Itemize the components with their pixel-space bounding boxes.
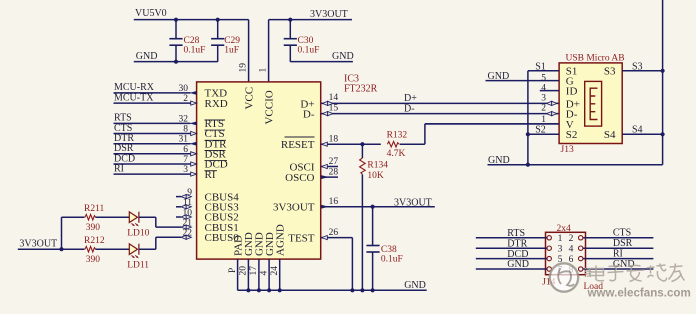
svg-text:20: 20 (239, 266, 249, 276)
svg-text:31: 31 (179, 135, 189, 145)
wire R134 to GND rail (361, 175, 363, 291)
svg-text:1: 1 (259, 68, 269, 73)
svg-text:27: 27 (329, 157, 339, 167)
wire corner down to CBUS1 (155, 217, 157, 227)
svg-text:VCC: VCC (244, 87, 256, 110)
wire 3V3OUT rail (269, 19, 352, 21)
svg-text:S4: S4 (632, 124, 643, 135)
wire CBUS0 stub (156, 236, 181, 238)
wire S4 wire (622, 133, 662, 135)
wire ID stub (540, 90, 559, 92)
svg-text:4: 4 (259, 271, 269, 276)
resistor R134 zigzag (360, 158, 366, 175)
wire corner up to CBUS0 (155, 237, 157, 249)
pin arrow (output) TXD (190, 91, 196, 94)
wire CBUS1 stub (156, 226, 181, 228)
wire IC3 PAD pin P drop (237, 259, 239, 290)
overline IC3 RTS (205, 119, 226, 121)
svg-text:0.1uF: 0.1uF (298, 46, 320, 56)
svg-text:R212: R212 (84, 236, 105, 246)
wire net DTR to J14 (476, 247, 547, 249)
svg-text:S3: S3 (604, 66, 616, 78)
connector J14 2x4 header body (546, 232, 586, 274)
pin arrow (input) DSR (191, 152, 197, 156)
LED LD11 symbol (129, 244, 139, 259)
junction VU5V0/C28 (174, 18, 178, 22)
junction RESET/R134 (360, 142, 364, 146)
wire RESET to R132 (321, 143, 381, 145)
J13 USB symbol (585, 81, 602, 126)
svg-text:3V3OUT: 3V3OUT (19, 238, 57, 249)
svg-text:J13: J13 (561, 145, 574, 155)
svg-text:VU5V0: VU5V0 (135, 8, 167, 19)
junction GND rail at x=258.9 (257, 288, 261, 292)
capacitor C28 symbol (175, 20, 177, 39)
overline IC3 DSR (205, 149, 226, 151)
svg-text:LD11: LD11 (127, 261, 149, 271)
wire net DCD to J14 (476, 258, 547, 260)
wire VCC pin19 drop (248, 20, 250, 83)
pin arrow (output) DTR (190, 142, 196, 145)
wire net MCU-TX to pin 2 (114, 102, 191, 104)
wire net GND from J14 (583, 268, 653, 270)
svg-text:R132: R132 (387, 131, 408, 141)
svg-text:3V3OUT: 3V3OUT (394, 197, 432, 208)
svg-text:5: 5 (541, 73, 546, 83)
junction GND rail at x=372.6 (371, 288, 375, 292)
wire IC3 GND pin 17 drop (258, 259, 260, 290)
junction GND rail at x=352.4 (350, 288, 354, 292)
capacitor C30 symbol (289, 20, 291, 39)
svg-text:RI: RI (114, 163, 124, 174)
wire R212 to LD11 (96, 248, 130, 250)
svg-text:R211: R211 (84, 204, 104, 214)
svg-text:30: 30 (179, 84, 189, 94)
junction GND/C28 (174, 60, 178, 64)
junction GND rail at x=248.4 (246, 288, 250, 292)
junction GND rail at x=362.4 (360, 288, 364, 292)
pin arrow (bidirectional) CBUS4 (181, 195, 191, 199)
svg-text:DTR: DTR (507, 238, 527, 249)
wire R132 to V drop (400, 143, 425, 145)
J14 pin circle left row 2 (547, 246, 551, 250)
wire R211 to LD10 (96, 216, 130, 218)
pin arrow (input) RXD (191, 101, 197, 105)
svg-text:3V3OUT: 3V3OUT (310, 9, 348, 20)
overline IC3 DCD (205, 160, 228, 162)
svg-text:1: 1 (541, 115, 546, 125)
LED LD10 symbol (129, 212, 139, 227)
svg-text:1: 1 (558, 234, 563, 244)
svg-text:0.1uF: 0.1uF (184, 46, 206, 56)
pin arrow (bidirectional) CBUS2 (181, 215, 191, 219)
overline IC3 RESET (285, 136, 315, 138)
wire 3V3OUT pin wire (321, 206, 435, 208)
overline IC3 RI (205, 170, 218, 172)
pin arrow (bidirectional) CBUS0 (181, 235, 191, 239)
pin arrow (bidirectional) D+ at IC (323, 101, 333, 105)
svg-text:R134: R134 (367, 161, 388, 171)
svg-text:4: 4 (541, 83, 546, 93)
capacitor C38 symbol (372, 207, 374, 245)
wire VU5V0 rail (134, 19, 249, 21)
svg-text:MCU-TX: MCU-TX (114, 92, 154, 103)
pin arrow (bidirectional) CBUS1 (181, 225, 191, 229)
svg-text:AGND: AGND (275, 224, 287, 256)
wire OSCO stub (321, 176, 338, 178)
wire IC3 GND pin 4 drop (268, 259, 270, 290)
svg-text:USB Micro AB: USB Micro AB (566, 54, 625, 64)
wire net GND to J14 (476, 268, 547, 270)
svg-text:390: 390 (86, 255, 101, 265)
wire net CTS from J14 (583, 237, 653, 239)
wire net RTS to pin 32 (114, 122, 191, 124)
svg-text:3: 3 (183, 165, 188, 175)
svg-text:RESET: RESET (281, 139, 315, 151)
watermark chinese characters (stylized) (590, 264, 685, 282)
wire CBUS3 stub (176, 206, 181, 208)
svg-text:FT232R: FT232R (344, 84, 378, 95)
svg-text:2: 2 (183, 94, 188, 104)
junction GND rail at x=279.7 (278, 288, 282, 292)
svg-text:GND: GND (404, 280, 426, 291)
wire net RTS to J14 (476, 237, 547, 239)
pin arrow (bidirectional) D+ at USB (547, 101, 557, 105)
J14 pin circle right row 1 (579, 236, 583, 240)
svg-text:RTS: RTS (507, 228, 525, 239)
pin arrow (bidirectional) D- at USB (547, 112, 557, 116)
op-amp U1: IC3 FT232R body (197, 82, 321, 259)
svg-text:S2: S2 (535, 125, 546, 136)
svg-text:CTS: CTS (613, 228, 631, 239)
svg-text:GND: GND (488, 71, 510, 82)
svg-text:26: 26 (329, 228, 339, 238)
svg-text:3: 3 (541, 93, 546, 103)
svg-text:28: 28 (329, 168, 339, 178)
svg-text:8: 8 (183, 125, 188, 135)
junction bus/S2 (526, 132, 530, 136)
pin arrow (input) RI (191, 172, 197, 176)
wire GND rail right (488, 164, 663, 166)
svg-text:14: 14 (329, 93, 339, 103)
J14 pin circle right row 2 (579, 246, 583, 250)
junction VU5V0/C29 (216, 18, 220, 22)
resistor R211 zigzag (85, 214, 96, 220)
wire OSCI stub (321, 166, 338, 168)
wire net DSR from J14 (583, 247, 653, 249)
wire GND to G pin (486, 80, 560, 82)
wire LD11 to corner (139, 248, 156, 250)
svg-text:S2: S2 (566, 129, 578, 141)
svg-text:OSCO: OSCO (285, 172, 314, 184)
svg-text:24: 24 (270, 266, 280, 276)
junction bus/GND rail (526, 163, 530, 167)
junction 3V3OUT branch (59, 247, 63, 251)
svg-text:17: 17 (249, 266, 259, 276)
watermark logo circle (550, 263, 578, 291)
svg-text:3V3OUT: 3V3OUT (273, 202, 315, 214)
wire 3V3OUT stub (18, 248, 62, 250)
junction 3V3OUT/C30 (288, 18, 292, 22)
svg-text:D-: D- (404, 103, 415, 114)
wire V wire (425, 123, 559, 125)
svg-text:GND: GND (488, 155, 510, 166)
svg-text:2: 2 (541, 104, 546, 114)
pin arrow (input) RESET (321, 142, 327, 146)
svg-text:GND: GND (507, 259, 529, 270)
wire CBUS2 stub (176, 216, 181, 218)
wire IC3 GND pin 20 drop (247, 259, 249, 290)
svg-text:3: 3 (558, 245, 563, 255)
J14 pin circle left row 4 (547, 267, 551, 271)
wire IC3 AGND pin 24 drop (279, 259, 281, 290)
svg-text:0.1uF: 0.1uF (381, 255, 403, 265)
wire TEST wire (321, 237, 352, 239)
wire net CTS to pin 8 (114, 133, 191, 135)
wire net MCU-RX to pin 30 (114, 92, 191, 94)
junction 3V3OUT/C38 (371, 205, 375, 209)
wire V wire to USB (425, 123, 559, 125)
overline IC3 CTS (205, 129, 226, 131)
resistor R132 zigzag (387, 141, 399, 147)
wire S1 wire (528, 70, 559, 72)
wire net DSR to pin 6 (114, 153, 191, 155)
overline IC3 DTR (205, 139, 227, 141)
wire to R212 (62, 248, 85, 250)
svg-text:1uF: 1uF (224, 46, 239, 56)
wire net RI from J14 (583, 258, 653, 260)
wire S2 wire (528, 133, 559, 135)
svg-text:15: 15 (329, 103, 339, 113)
wire to R211 (62, 216, 85, 218)
watermark dots (585, 268, 591, 277)
wire branch up (61, 217, 63, 249)
svg-text:ID: ID (566, 86, 578, 98)
pin arrow (bidirectional) CBUS3 (181, 205, 191, 209)
svg-text:RXD: RXD (205, 98, 228, 110)
wire net D- IC to USB (321, 113, 559, 115)
wire net DTR to pin 31 (114, 143, 191, 145)
svg-text:DSR: DSR (613, 238, 633, 249)
svg-text:4: 4 (569, 245, 574, 255)
J14 pin circle left row 1 (547, 236, 551, 240)
wire net RI to pin 3 (114, 173, 191, 175)
wire TEST to GND rail (351, 238, 353, 291)
svg-text:2: 2 (569, 234, 574, 244)
svg-text:D-: D- (303, 109, 315, 121)
svg-text:4.7K: 4.7K (387, 149, 406, 159)
wire V drop (424, 124, 426, 144)
wire GND rail top-left (134, 61, 218, 63)
junction S4/vertical (661, 132, 665, 136)
pin arrow (output) OSCO (321, 175, 327, 178)
pin arrow (bidirectional) D- at IC (323, 112, 333, 116)
pin arrow (input) DCD (191, 162, 197, 166)
wire LD10 to corner (139, 216, 156, 218)
svg-text:GND: GND (136, 51, 158, 62)
pin arrow (output) 3V3OUT (321, 205, 327, 208)
wire right vertical net (662, 0, 664, 165)
svg-text:S4: S4 (604, 129, 616, 141)
svg-text:10K: 10K (367, 171, 384, 181)
svg-text:32: 32 (179, 114, 189, 124)
svg-text:390: 390 (86, 223, 101, 233)
svg-text:P: P (228, 268, 238, 273)
pin arrow (output) RTS (190, 122, 196, 125)
svg-text:16: 16 (329, 197, 339, 207)
svg-text:7: 7 (183, 155, 188, 165)
svg-text:19: 19 (239, 63, 249, 73)
pin arrow (input) OSCI (321, 164, 327, 168)
svg-text:S1: S1 (535, 61, 546, 72)
wire VCCIO pin1 drop (268, 20, 270, 83)
connector J13 body (559, 63, 622, 144)
junction S3/vertical (661, 69, 665, 73)
wire GND rail bottom (238, 289, 427, 291)
wire GND rail top-mid (290, 61, 353, 63)
svg-text:RI: RI (613, 248, 623, 259)
svg-text:18: 18 (329, 135, 339, 145)
resistor R212 zigzag (85, 246, 96, 252)
wire net D+ IC to USB (321, 102, 559, 104)
svg-text:DCD: DCD (507, 249, 528, 260)
svg-text:TEST: TEST (288, 233, 315, 245)
svg-text:GND: GND (332, 51, 354, 62)
svg-text:www.elecfans.com: www.elecfans.com (587, 286, 691, 299)
wire S3 wire (622, 70, 662, 72)
svg-text:VCCIO: VCCIO (264, 90, 276, 124)
pin arrow (input) CTS (191, 131, 197, 135)
wire RESET to R134 (361, 144, 363, 158)
J14 pin circle left row 3 (547, 256, 551, 260)
capacitor C29 symbol (217, 20, 219, 39)
svg-text:6: 6 (183, 145, 188, 155)
wire S1/S2 GND bus (527, 71, 529, 165)
wire net DCD to pin 7 (114, 163, 191, 165)
pin arrow (input) TEST (321, 236, 327, 240)
svg-text:LD10: LD10 (127, 229, 149, 239)
svg-text:S3: S3 (632, 62, 643, 73)
wire CBUS4 stub (176, 196, 181, 198)
junction GND rail at x=269.1 (267, 288, 271, 292)
J14 pin circle right row 3 (579, 256, 583, 260)
J14 pin circle right row 4 (579, 267, 583, 271)
